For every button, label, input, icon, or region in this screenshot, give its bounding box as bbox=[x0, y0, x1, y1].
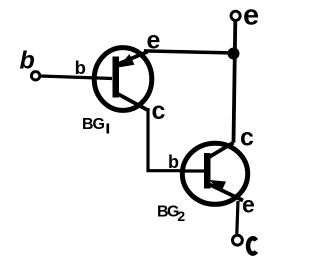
svg-text:c: c bbox=[240, 124, 254, 152]
svg-text:BG: BG bbox=[82, 116, 105, 133]
label C terminal bbox=[248, 238, 256, 253]
label BG1 subscript 1 bbox=[107, 124, 110, 134]
wire emitter rail bbox=[144, 51, 234, 53]
svg-text:2: 2 bbox=[177, 208, 185, 224]
wire BG2 emitter down bbox=[237, 201, 238, 234]
transistor BG2 emitter line bbox=[208, 184, 244, 201]
transistor BG2 emitter arrow bbox=[210, 180, 227, 193]
junction dot bbox=[228, 48, 240, 60]
terminal C bottom bbox=[233, 235, 243, 245]
svg-text:b: b bbox=[20, 47, 35, 75]
wire right rail bbox=[234, 21, 236, 143]
svg-text:b: b bbox=[168, 152, 179, 172]
svg-text:c: c bbox=[152, 97, 166, 125]
transistor BG1 emitter line bbox=[117, 52, 148, 65]
transistor BG1 emitter arrow bbox=[118, 54, 135, 68]
transistor BG1 body bbox=[94, 48, 152, 111]
transistor BG1 collector line bbox=[117, 94, 148, 111]
transistor BG2 base bar bbox=[204, 153, 211, 189]
terminal b bbox=[31, 72, 39, 80]
transistor BG2 base lead bbox=[183, 169, 205, 172]
transistor BG2 collector line bbox=[208, 143, 234, 159]
svg-text:b: b bbox=[75, 57, 86, 78]
wire BG1 collector down bbox=[148, 108, 183, 171]
svg-text:e: e bbox=[243, 0, 259, 31]
transistor BG2 body bbox=[182, 143, 247, 204]
svg-text:BG: BG bbox=[157, 203, 179, 220]
svg-text:e: e bbox=[242, 192, 255, 218]
terminal e top bbox=[231, 11, 240, 20]
wire b lead bbox=[41, 76, 113, 79]
transistor BG1 base bar bbox=[113, 57, 120, 98]
